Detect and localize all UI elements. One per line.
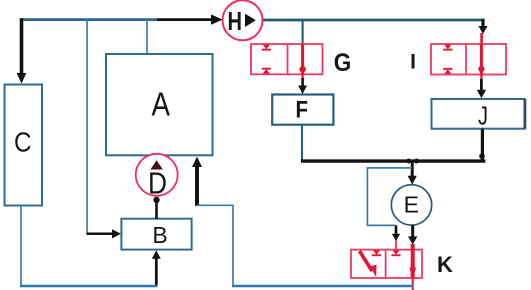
svg-text:A: A (152, 86, 171, 123)
svg-text:J: J (478, 101, 488, 131)
valve I flow line (480, 44, 483, 75)
valve K diagonal path (360, 251, 373, 271)
box B (121, 219, 191, 250)
wire bottom-right bus (232, 285, 414, 287)
svg-text:E: E (404, 191, 419, 217)
valve K blocked port right (391, 250, 400, 256)
svg-text:B: B (152, 222, 167, 248)
svg-text:F: F (296, 96, 309, 123)
valve K flow line (411, 244, 415, 278)
wire G to F arrow (302, 74, 304, 79)
valve G flow line (301, 44, 304, 74)
valve G body (251, 44, 323, 74)
motor circle E (391, 185, 431, 225)
wire red pilot stub into K (395, 241, 397, 254)
wire drop to C with arrow (20, 18, 24, 74)
wire A branch to right riser (197, 205, 233, 286)
wire top bus black segment into H (157, 18, 213, 21)
valve K body (351, 250, 422, 278)
wire K to bottom bus red (412, 278, 414, 290)
wire bypass bracket around E (367, 168, 412, 226)
pump circle D (136, 154, 178, 196)
wire bottom to B arrow (155, 258, 158, 286)
valve G blocked port bottom (262, 68, 271, 74)
node junction dots on bus (406, 159, 411, 164)
wire bus to E arrow (411, 162, 414, 177)
wire J to bus vertical (481, 129, 484, 161)
wire vertical at x87 down to B branch (86, 20, 88, 234)
svg-text:D: D (148, 166, 167, 201)
box J dark right edge (524, 99, 527, 129)
svg-text:I: I (410, 50, 416, 73)
wire right corner drop to valve I with arrow (481, 19, 484, 27)
box C (5, 85, 43, 206)
pump circle H (223, 0, 263, 40)
D triangle (150, 160, 163, 169)
wire I to J arrow (480, 74, 482, 80)
svg-text:G: G (334, 49, 352, 77)
wire top bus left segment (21, 18, 159, 21)
wire vertical from bus to A top (146, 20, 148, 55)
valve I body (431, 44, 506, 75)
valve G blocked port top (262, 45, 271, 51)
wire arrow into B left (87, 233, 114, 236)
valve I blocked port top (443, 45, 452, 51)
wire arrow up into A bottom (195, 166, 199, 206)
box F (272, 95, 333, 125)
svg-text:C: C (14, 126, 32, 157)
svg-text:H: H (228, 6, 243, 36)
box J (432, 99, 525, 129)
wire C down to bottom-left bus (20, 206, 22, 287)
wire E to K arrow (411, 225, 414, 237)
box A (106, 54, 213, 155)
wire top bus teal segment H to right corner (261, 19, 484, 22)
wire bottom-left bus (20, 285, 158, 287)
svg-text:K: K (437, 252, 453, 277)
wire B to D with node dot (153, 197, 159, 203)
wire black bus horizontal (301, 159, 485, 162)
valve I blocked port bottom (443, 68, 452, 74)
node corner dot (479, 153, 485, 159)
valve K blocked port left (372, 250, 381, 256)
wire bracket to K pilot arrow (395, 225, 398, 235)
wire junction drop to valve G (302, 20, 304, 45)
wire F to black bus (301, 125, 303, 160)
